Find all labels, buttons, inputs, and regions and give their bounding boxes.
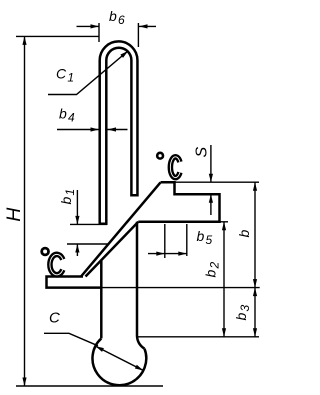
b6 dimension xyxy=(77,25,100,27)
bulb diameter arrow xyxy=(95,346,143,370)
b5 dimension xyxy=(164,224,166,258)
stem left edge xyxy=(100,260,103,338)
b2 dimension xyxy=(223,222,225,337)
svg-text:b: b xyxy=(236,229,252,238)
top flange with step xyxy=(138,182,219,222)
H top extension line xyxy=(16,35,99,37)
b6 extension lines xyxy=(98,23,100,42)
C label underline and leader to bulb xyxy=(44,333,98,346)
degree-C mark upper: ring xyxy=(157,153,163,159)
degree-C mark lower: ring xyxy=(42,248,49,255)
S dimension xyxy=(210,145,212,182)
tangent line extension xyxy=(137,336,259,338)
svg-text:H: H xyxy=(3,207,25,222)
hairpin channel (top U-shaped wall) xyxy=(100,41,138,223)
top surface extension line xyxy=(175,181,260,183)
inclined web upper edge xyxy=(81,182,161,276)
b dimension xyxy=(254,182,256,287)
svg-text:S: S xyxy=(194,146,211,158)
b3 dimension xyxy=(254,288,256,337)
degree-C mark upper: C stroke xyxy=(170,157,180,178)
C1 label underline and leader xyxy=(48,51,128,95)
inclined web lower edge xyxy=(86,222,139,277)
degree-C mark lower: C stroke xyxy=(50,254,63,274)
b1 dimension xyxy=(70,223,107,225)
stem right edge xyxy=(137,222,145,349)
flange underside extension xyxy=(220,221,229,223)
bottom bulb circle xyxy=(92,338,146,385)
b4 dimension xyxy=(57,129,99,131)
H bottom extension line xyxy=(16,385,163,387)
svg-text:C: C xyxy=(49,310,61,327)
foot at lower left xyxy=(47,277,103,288)
H dimension line xyxy=(24,36,26,386)
foot bottom extension xyxy=(102,287,260,289)
